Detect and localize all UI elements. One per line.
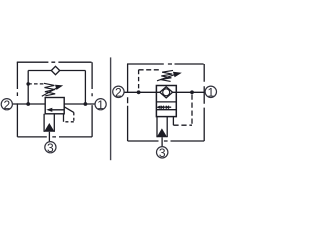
neck below box right [53, 114, 55, 132]
adjustment arrowhead [55, 85, 63, 90]
svg-text:2: 2 [115, 86, 122, 100]
body divider 2 [156, 109, 176, 111]
wire: port 2 to valve box [12, 103, 45, 105]
neck below body left [156, 117, 158, 138]
port 3 [45, 141, 56, 155]
poppet triangle [44, 123, 55, 132]
drain: dashed bottom run [173, 124, 192, 126]
adjustment arrow shaft [42, 88, 58, 97]
wire: port 2 to port 1 main line [124, 91, 205, 93]
envelope bottom edge [128, 140, 205, 142]
envelope bottom edge [17, 136, 92, 138]
wire: top line right of diamond [60, 70, 86, 72]
svg-text:1: 1 [207, 86, 214, 100]
junction node at right riser [84, 102, 88, 106]
seat arrowhead in box [46, 108, 52, 112]
port 1 [95, 98, 106, 112]
envelope top edge [17, 61, 92, 63]
junction node pilot [26, 82, 30, 86]
wire: valve box to port 1 [64, 103, 95, 105]
junction node drain tap [190, 90, 194, 94]
drain: dashed right edge [73, 112, 75, 121]
wire: right riser [84, 71, 86, 105]
stem to port 3 [48, 132, 50, 142]
throttle arrowhead [156, 106, 160, 109]
main line through top cell [156, 91, 176, 93]
divider between left and right schematics [110, 57, 112, 160]
throttle arrow line [159, 106, 171, 108]
drain: box right edge extension [63, 114, 65, 122]
seat line in box [48, 109, 64, 111]
stem to port 3 [161, 137, 163, 146]
orifice diamond [51, 66, 59, 74]
seat mark x2 [166, 106, 169, 109]
neck below box left [43, 114, 45, 132]
svg-text:3: 3 [47, 141, 54, 155]
spring (adjustable) [161, 70, 174, 81]
wire: top line left of diamond [28, 70, 51, 72]
valve body [156, 86, 176, 117]
envelope right edge [203, 64, 205, 141]
pilot dashed riser [138, 70, 140, 93]
spring (adjustable) [44, 83, 55, 96]
port 3 right [157, 146, 168, 160]
wire: left riser [27, 71, 29, 105]
adjustment arrow shaft [157, 74, 177, 81]
junction node at left riser [26, 102, 30, 106]
poppet triangle [157, 128, 168, 137]
junction node pilot tap [137, 90, 141, 94]
adjustment arrowhead [173, 72, 182, 78]
svg-text:3: 3 [159, 146, 166, 160]
drain: diagonal [64, 107, 74, 113]
envelope right edge [91, 62, 93, 137]
svg-text:2: 2 [3, 98, 10, 112]
pilot dashed line to spring [28, 83, 45, 85]
port 2 [1, 98, 12, 112]
envelope top edge [127, 63, 204, 65]
check valve ball [163, 89, 170, 96]
drain: dashed bottom [64, 121, 74, 123]
svg-text:1: 1 [97, 98, 104, 112]
valve box [45, 98, 64, 114]
envelope left edge [16, 62, 18, 137]
envelope left edge [127, 64, 129, 141]
pilot dashed top run [139, 69, 160, 71]
drain: dashed riser to outlet [191, 95, 193, 126]
port 1 right [205, 86, 216, 100]
drain: vertical below body [172, 117, 174, 126]
seat mark x1 [161, 106, 164, 109]
body divider 1 [156, 101, 176, 103]
port 2 right [113, 86, 124, 100]
check valve diamond [160, 87, 173, 98]
neck below body right [166, 117, 168, 138]
